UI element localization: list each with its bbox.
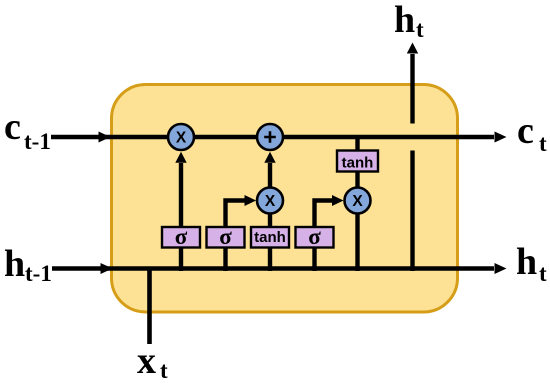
arrowhead h-t top output bbox=[407, 43, 418, 54]
svg-text:c: c bbox=[4, 106, 21, 148]
wire sigma1 column bbox=[179, 163, 183, 271]
arrowhead h-t output bbox=[495, 263, 507, 274]
svg-text:σ: σ bbox=[308, 224, 321, 249]
svg-text:h: h bbox=[516, 241, 537, 283]
svg-text:h: h bbox=[394, 0, 415, 41]
wire sigma2 column and elbow into multiply gate 2 bbox=[226, 201, 246, 272]
multiply gate circle 3 bbox=[345, 188, 371, 214]
svg-text:t-1: t-1 bbox=[25, 261, 52, 286]
svg-text:t: t bbox=[160, 358, 168, 383]
svg-text:tanh: tanh bbox=[342, 155, 374, 172]
wire sigma3 column and elbow into multiply gate 3 bbox=[315, 201, 333, 272]
arrowhead c-t output bbox=[495, 132, 507, 143]
LSTM cell body bbox=[112, 85, 458, 313]
add gate circle bbox=[257, 124, 283, 150]
arrowhead c-t-1 into cell bbox=[99, 132, 111, 143]
arrowhead into multiply gate 1 bbox=[175, 152, 186, 163]
arrowhead into multiply gate 3 bbox=[332, 195, 344, 206]
wire h-line horizontal bbox=[52, 266, 494, 271]
multiply gate circle 2 bbox=[257, 188, 283, 214]
sigma gate box 1 bbox=[162, 227, 200, 248]
svg-text:X: X bbox=[352, 193, 363, 210]
multiply gate circle 1 bbox=[168, 124, 194, 150]
svg-text:t-1: t-1 bbox=[24, 129, 51, 154]
wire c-line horizontal bbox=[51, 135, 494, 140]
wire x-t input vertical bbox=[147, 267, 152, 345]
svg-text:X: X bbox=[265, 193, 276, 210]
sigma gate box 3 bbox=[296, 227, 334, 248]
tanh gate box bottom bbox=[251, 227, 289, 248]
arrowhead h-t-1 into cell bbox=[101, 263, 113, 274]
svg-text:t: t bbox=[539, 261, 547, 286]
svg-text:tanh: tanh bbox=[254, 229, 286, 246]
svg-text:x: x bbox=[137, 340, 156, 382]
svg-text:c: c bbox=[517, 110, 534, 152]
svg-text:h: h bbox=[4, 243, 25, 285]
arrowhead into multiply gate 2 bbox=[245, 195, 257, 206]
sigma gate box 2 bbox=[207, 227, 245, 248]
wire c-line to tanh output gate bbox=[355, 137, 359, 271]
svg-text:t: t bbox=[416, 17, 424, 42]
svg-text:σ: σ bbox=[219, 224, 232, 249]
arrowhead into add gate bbox=[264, 152, 275, 163]
tanh box upper output bbox=[337, 151, 378, 172]
wire h-t vertical output bbox=[410, 54, 414, 271]
wire tanh column candidate bbox=[268, 163, 272, 271]
svg-text:X: X bbox=[176, 129, 187, 146]
svg-text:t: t bbox=[539, 131, 547, 156]
svg-text:σ: σ bbox=[175, 224, 188, 249]
